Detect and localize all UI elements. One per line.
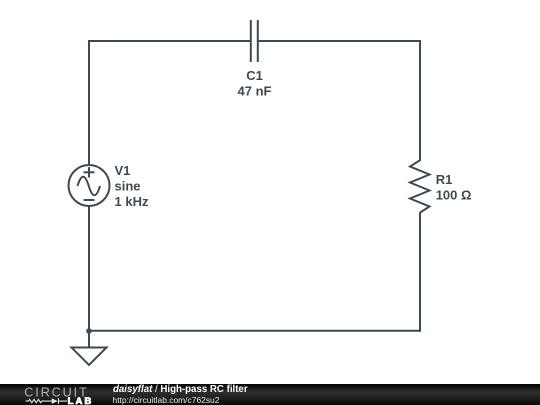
wire top-right horizontal segment	[259, 40, 421, 42]
svg-text:C1: C1	[246, 68, 263, 83]
CircuitLab logo	[0, 384, 96, 405]
wire left vertical upper segment	[88, 40, 90, 166]
url text	[113, 396, 220, 405]
wire bottom horizontal segment	[89, 330, 420, 332]
svg-text:V1: V1	[115, 163, 131, 178]
svg-text:LAB: LAB	[68, 396, 94, 405]
wire left vertical lower segment	[88, 206, 90, 330]
svg-text:100 Ω: 100 Ω	[436, 188, 472, 203]
resistor R1	[410, 161, 430, 214]
voltage source V1	[69, 165, 110, 206]
wire top-left horizontal segment	[89, 40, 250, 42]
capacitor C1	[251, 20, 258, 62]
wire junction-to-ground segment	[88, 330, 90, 347]
svg-text:47 nF: 47 nF	[238, 84, 272, 99]
svg-text:sine: sine	[115, 179, 141, 194]
node junction dot	[86, 328, 92, 334]
title text	[113, 385, 248, 394]
ground	[72, 348, 107, 366]
wire right vertical upper segment	[419, 40, 421, 161]
svg-text:1 kHz: 1 kHz	[115, 194, 149, 209]
footer bar	[0, 384, 540, 405]
svg-text:R1: R1	[436, 172, 453, 187]
wire right vertical lower segment	[419, 213, 421, 332]
